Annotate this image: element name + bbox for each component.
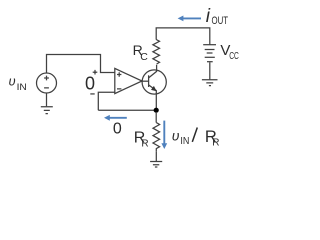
label VCC — [220, 42, 238, 62]
svg-text:0: 0 — [85, 73, 95, 93]
ground (below RR) — [150, 162, 162, 168]
wire source top to op-amp plus input — [47, 55, 115, 74]
svg-text:IN: IN — [180, 136, 189, 147]
transistor Q1 — [142, 65, 166, 110]
svg-text:IN: IN — [17, 82, 27, 93]
label 0 (virtual short voltage) — [85, 70, 97, 94]
svg-text:CC: CC — [229, 51, 239, 62]
wire RR to ground — [155, 151, 157, 161]
wire node to RR — [155, 112, 157, 123]
op-amp U1 — [115, 68, 142, 93]
resistor RR — [153, 123, 160, 152]
svg-text:0: 0 — [113, 121, 122, 138]
label RR — [134, 129, 149, 149]
wire source bottom to ground — [46, 93, 48, 106]
node emitter junction — [154, 108, 159, 113]
wire op-amp minus input feedback — [98, 92, 115, 110]
current arrow 0 (into op-amp input) — [104, 115, 127, 121]
label vIN — [9, 74, 27, 93]
label vIN/RR — [172, 127, 220, 148]
ground (below VCC) — [202, 80, 218, 86]
svg-text:OUT: OUT — [212, 15, 229, 27]
svg-text:R: R — [212, 138, 219, 149]
svg-text:C: C — [140, 51, 148, 63]
svg-text:R: R — [141, 139, 148, 150]
wire RC top to VCC — [156, 28, 210, 45]
label RC — [133, 42, 149, 63]
label iOUT — [206, 6, 229, 27]
resistor RC — [153, 40, 160, 65]
ground (below VIN) — [41, 107, 53, 114]
svg-text:i: i — [206, 6, 211, 27]
current arrow vIN/RR — [161, 121, 167, 149]
voltage source VIN — [37, 73, 57, 93]
svg-text:υ: υ — [9, 74, 16, 89]
current arrow iOUT — [178, 16, 201, 22]
wire feedback horizontal to emitter node — [98, 109, 156, 111]
svg-text:υ: υ — [172, 127, 180, 143]
battery VCC — [203, 45, 216, 62]
wire battery to ground — [209, 62, 211, 79]
